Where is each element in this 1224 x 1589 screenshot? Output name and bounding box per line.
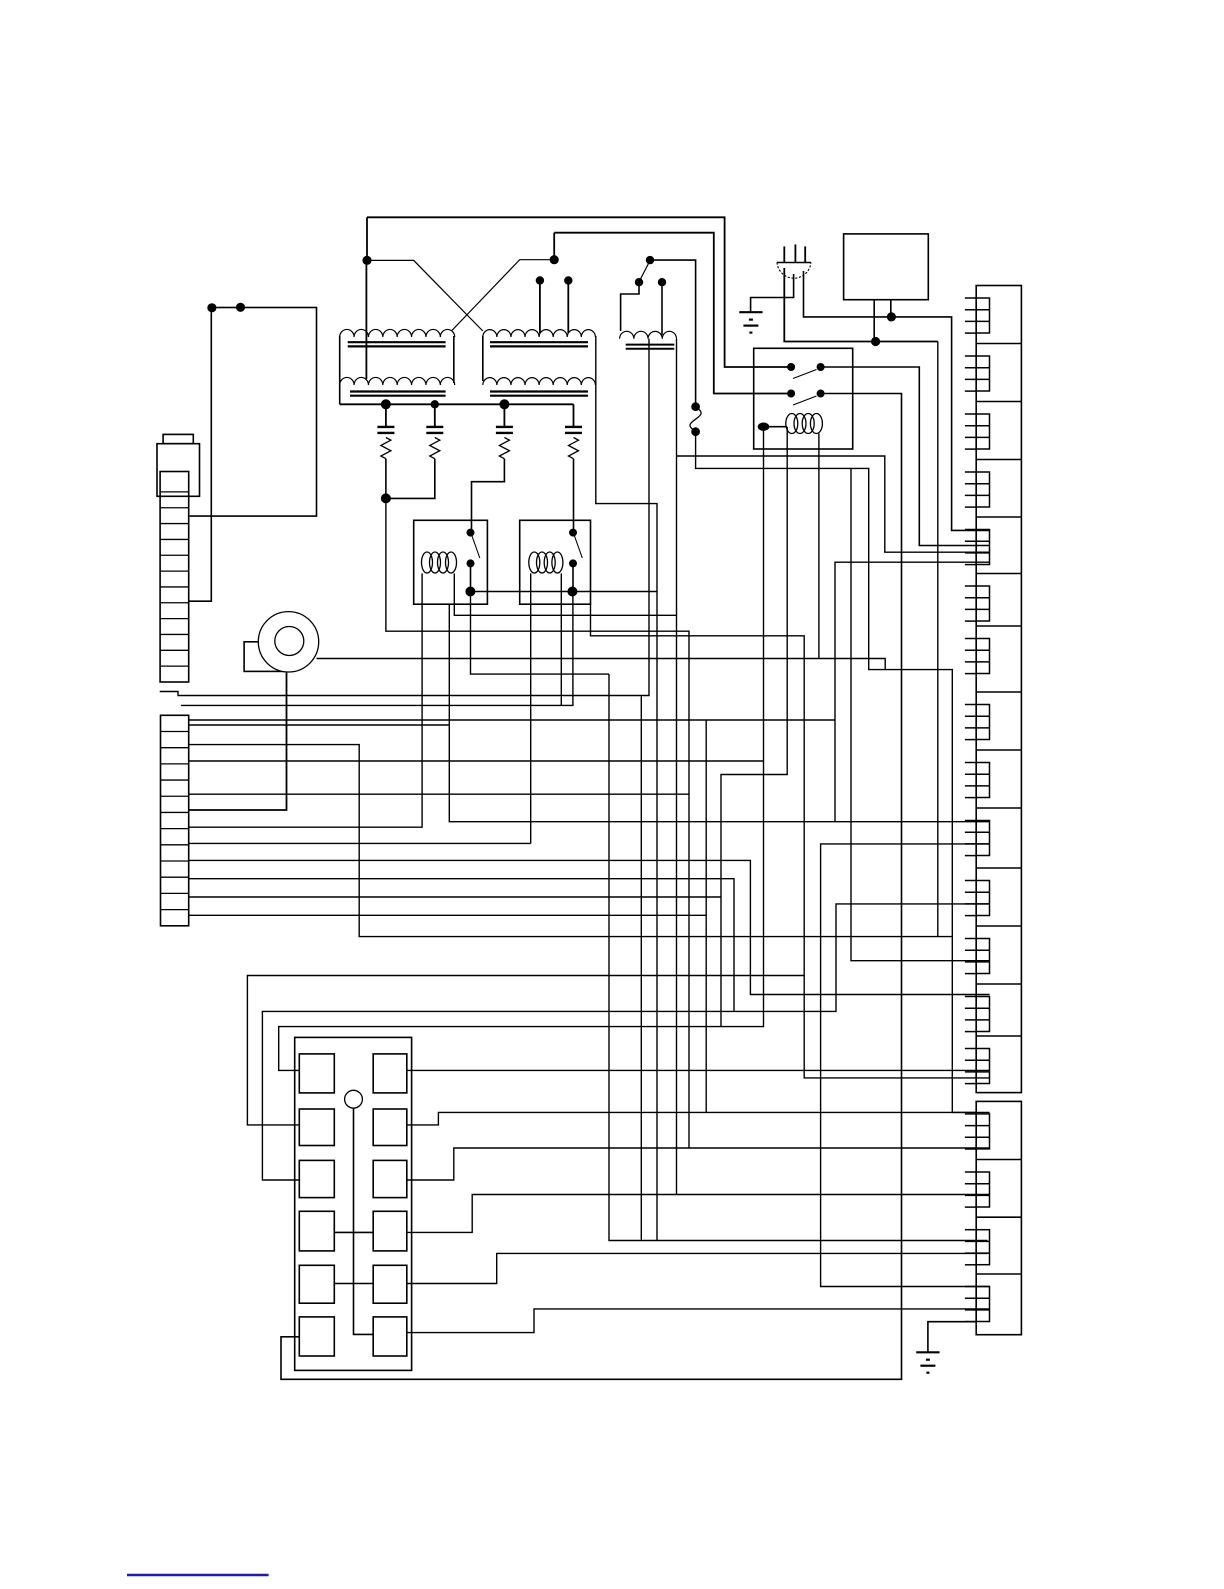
- wire SW1 common to fuse: [650, 260, 696, 407]
- wire P2 pin5 chain: [189, 793, 689, 795]
- wire RY1 aux riser: [448, 604, 450, 725]
- connector block pins 5: [976, 530, 989, 565]
- node dot RY2 sw mid: [569, 559, 577, 567]
- RC network 2 (C2 R2): [434, 404, 436, 427]
- wire T2 right down chain: [596, 336, 657, 1241]
- connector block pins 11: [976, 881, 989, 916]
- wire RY1 sw mid-bottom: [470, 563, 472, 591]
- wire v853: [851, 468, 990, 960]
- wire CN2 R3 out: [407, 1148, 990, 1180]
- wire B1 bottom to ladder P1: [190, 515, 212, 517]
- wire v835 upper: [835, 562, 990, 822]
- wire top bus 1: [367, 217, 791, 367]
- relay RY2 switch blade: [575, 536, 583, 558]
- node dot RY1 sw mid: [467, 559, 475, 567]
- wire GND2 to connector: [928, 1322, 976, 1352]
- connector block pins 13: [976, 997, 989, 1032]
- switch SW1 blade: [641, 264, 649, 280]
- connector block pins 6: [976, 586, 989, 621]
- node dot RY1 sw top: [467, 529, 475, 537]
- node dot RY3 sw2 L: [787, 390, 795, 398]
- node dot T2 tap b: [564, 276, 572, 284]
- wire RY3 terminal-coil: [768, 426, 787, 428]
- node dot RC3: [499, 399, 509, 409]
- relay RY2 coil: [529, 552, 540, 573]
- connector block pins 9: [976, 763, 989, 798]
- blower motor M1 flange: [244, 642, 287, 672]
- wire F1 to connector rail: [696, 432, 977, 1113]
- wire B1 left edge down to ladder P1: [189, 516, 212, 601]
- footer link line: [127, 1574, 269, 1577]
- relay RY3 box: [754, 348, 853, 449]
- wire CN2 row5 link: [334, 1283, 373, 1285]
- relay RY1 switch blade: [472, 536, 480, 558]
- wire pin chain x836: [262, 904, 989, 1180]
- wire RY2 sw mid-bottom: [572, 563, 574, 591]
- wire P2 pin8 chain: [189, 879, 734, 1012]
- wire P2 pin1 chain: [189, 719, 835, 721]
- node RY3 coil terminal: [758, 423, 770, 431]
- wire T2 tap b: [567, 281, 569, 334]
- wire RC2 to junction: [386, 459, 435, 499]
- relay RY3 switch2 blade: [793, 396, 817, 405]
- wire SW1-a to T3: [621, 282, 639, 331]
- transformer T1: [340, 329, 455, 337]
- blower motor M1 housing: [258, 612, 318, 672]
- wire CN2 R4 out: [407, 1195, 990, 1233]
- CN2 pin L1: [299, 1054, 334, 1093]
- wire relay common link: [470, 591, 657, 593]
- connector block pins 1: [976, 298, 989, 333]
- node dot RC junction: [381, 493, 391, 503]
- wire PL1 line to bus: [784, 268, 938, 342]
- wire PL1 neutral: [804, 271, 990, 530]
- connector block pins 15: [976, 1114, 989, 1149]
- CN2 pin R3: [373, 1160, 407, 1197]
- wire P2 pin7 chain: [189, 860, 990, 994]
- connector block pins 2: [976, 356, 989, 391]
- ground GND2: [916, 1351, 939, 1353]
- node dot RC1: [381, 399, 391, 409]
- connector block pins 4: [976, 472, 989, 507]
- node dot T2 feed: [550, 255, 559, 264]
- RC network 3 (C3 R3): [503, 404, 505, 427]
- wire CN2 R1 out: [407, 1069, 990, 1071]
- wire T3 tap down to ladder P2: [160, 339, 649, 696]
- connector block pins 18: [976, 1287, 989, 1322]
- connector ladder P2 (lower left, 13 cells): [161, 715, 189, 926]
- CN2 pin L2: [299, 1109, 334, 1146]
- wire node to bus1: [366, 217, 368, 260]
- box B1 (upper-left rectangle): [211, 308, 316, 517]
- wire RC4 to RY2 switch: [573, 459, 575, 529]
- connector ladder P1 (upper left, 13 cells): [160, 472, 189, 683]
- component S1 body: [157, 444, 200, 497]
- wire SW1-b to T3: [661, 282, 663, 335]
- node dot RC2: [431, 400, 439, 408]
- connector strip CN group 1 (right edge, 14 blocks): [976, 286, 1021, 1093]
- wire CN2 R6 out: [407, 1309, 990, 1333]
- CN2 pin R1: [373, 1054, 407, 1093]
- node dot RY3 sw1 R: [817, 363, 825, 371]
- node dot SW1 common: [646, 256, 654, 264]
- node dot RY2 common: [567, 587, 577, 597]
- wire RY3 terminal down chain: [279, 431, 764, 1071]
- wire RY1 common down: [471, 592, 610, 675]
- wire top bus 2: [554, 233, 791, 394]
- CN2 pin R2: [373, 1109, 407, 1146]
- wire T1 primary tap from node: [365, 260, 367, 379]
- CN2 pin L4: [299, 1211, 334, 1251]
- wire B2 lead a: [873, 300, 875, 342]
- ground GND1: [739, 311, 762, 313]
- wire RC3 to RY1 switch: [472, 459, 505, 529]
- transformer T3 (line filter): [620, 331, 677, 338]
- wire RY3 coil right down: [818, 434, 820, 659]
- connector block pins 14: [976, 1049, 989, 1084]
- connector block pins 8: [976, 705, 989, 740]
- wire v641: [640, 696, 642, 1241]
- node dot RY2 sw top: [569, 529, 577, 537]
- connector block pins 12: [976, 939, 989, 974]
- wire v609: [609, 674, 987, 1240]
- wire P2 pin9 chain: [189, 896, 721, 898]
- connector CN2 outline: [295, 1037, 412, 1370]
- RC network 1 (C1 R1): [385, 404, 387, 427]
- wire pin chain x820: [821, 844, 990, 1287]
- CN2 key circle: [345, 1090, 363, 1108]
- CN2 pin R6: [373, 1317, 407, 1356]
- blower motor M1 rotor: [275, 627, 304, 656]
- CN2 pin R4: [373, 1211, 407, 1251]
- wire H975 chain: [247, 976, 804, 1125]
- wire v706: [705, 720, 707, 1112]
- node dot T2 tap a: [536, 276, 544, 284]
- connector block pins 16: [976, 1172, 989, 1207]
- CN2 pin R5: [373, 1265, 407, 1303]
- wire B2 lead b: [890, 300, 892, 317]
- node dot B1-b: [236, 303, 245, 312]
- RC network 4 (C4 R4): [573, 404, 575, 427]
- transformer T2: [483, 330, 596, 337]
- relay RY1 box: [414, 520, 488, 604]
- CN2 pin L6: [299, 1317, 334, 1356]
- wire RY1 aux to ladder: [189, 725, 990, 822]
- relay RY2 box: [520, 520, 591, 604]
- wire RY2 box right chain: [591, 604, 990, 1078]
- relay RY3 switch1 blade: [793, 370, 817, 379]
- wire CN2 R5 out: [407, 1253, 988, 1283]
- wire P2 pin4 chain: [189, 760, 764, 762]
- connector strip CN group 2 (right edge, 4 blocks): [976, 1101, 1021, 1334]
- wire RY1 coil left to ladder: [189, 573, 422, 827]
- wire CN2 row4 link: [334, 1231, 373, 1233]
- fuse F1: [691, 402, 700, 411]
- wire bus down col: [937, 342, 939, 937]
- node dot SW1 b: [658, 278, 666, 286]
- wire RY3 coil left down chain: [721, 427, 787, 1027]
- wire PL1 earth: [751, 274, 794, 312]
- wire P2 pin10 chain: [189, 914, 707, 916]
- connector block pins 17: [976, 1230, 989, 1265]
- wire RC1 down: [385, 459, 387, 499]
- connector block pins 10: [976, 821, 989, 856]
- wire crossover diagonal A: [367, 260, 483, 331]
- wire RC junction down chain: [386, 498, 689, 1148]
- wire P2 pin6 chain: [189, 842, 531, 844]
- CN2 pin L3: [299, 1160, 334, 1197]
- wire T2 tap a: [539, 281, 541, 334]
- connector block pins 7: [976, 639, 989, 674]
- wire T3 right down: [676, 339, 678, 1195]
- wire RY2 coil right down: [560, 573, 562, 705]
- node dot T1 tap: [362, 256, 371, 265]
- CN2 pin L5: [299, 1265, 334, 1303]
- wire secondary bus: [340, 403, 574, 405]
- relay RY1 coil: [422, 552, 433, 573]
- wire P2 pin3 chain: [189, 745, 953, 937]
- wire A2 run: [181, 592, 573, 706]
- node dot bus-B2: [871, 337, 880, 346]
- wire crossover diagonal B: [451, 260, 554, 331]
- node dot SW1 a: [635, 278, 643, 286]
- node dot RY1 common: [465, 587, 475, 597]
- wire RY3 sw2 R long run: [281, 394, 902, 1380]
- wire RY3 sw1 R out: [821, 367, 990, 546]
- wire v673 chain: [454, 573, 676, 615]
- wire CN2 key down: [354, 1108, 374, 1334]
- node dot RY3 sw1 L: [787, 363, 795, 371]
- wire T3R branch to connector: [677, 456, 990, 552]
- power plug PL1: [777, 262, 811, 264]
- node dot B1-a: [207, 303, 216, 312]
- wire M1 to ladder P2: [189, 672, 287, 810]
- box B2 (noise filter): [844, 234, 929, 300]
- node dot RY3 sw2 R: [817, 390, 825, 398]
- wire M1 right run: [317, 659, 886, 670]
- wire node to bus2: [553, 233, 555, 260]
- node dot neutral-B2: [887, 312, 896, 321]
- wire CN2 R2 out: [407, 1112, 990, 1125]
- component S1 top cap: [163, 434, 193, 443]
- connector block pins 3: [976, 414, 989, 449]
- wire RY2 coil left down: [530, 573, 532, 843]
- relay RY3 coil: [786, 414, 798, 434]
